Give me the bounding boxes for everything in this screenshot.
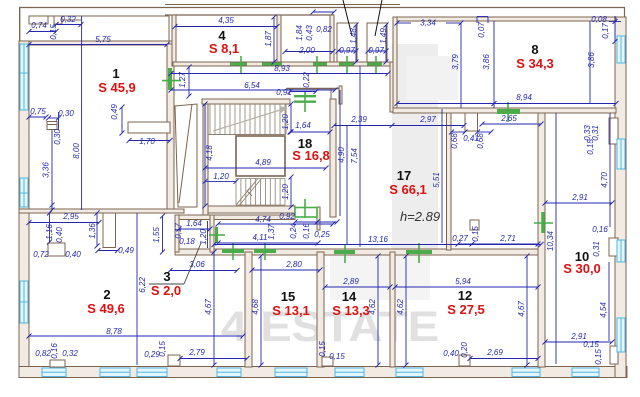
svg-text:0,17: 0,17	[601, 23, 610, 39]
svg-text:2,80: 2,80	[285, 260, 302, 269]
svg-text:0,72: 0,72	[33, 250, 49, 259]
svg-text:0,16: 0,16	[50, 343, 59, 359]
svg-text:0,24: 0,24	[289, 223, 298, 239]
svg-text:0,25: 0,25	[314, 230, 330, 239]
svg-text:2,89: 2,89	[342, 277, 359, 286]
svg-text:0,20: 0,20	[460, 342, 469, 358]
svg-text:0,97: 0,97	[368, 46, 384, 55]
svg-text:0,15: 0,15	[586, 139, 595, 155]
svg-text:0,15: 0,15	[583, 340, 599, 349]
svg-text:2,95: 2,95	[62, 212, 79, 221]
svg-text:1,64: 1,64	[186, 219, 202, 228]
svg-text:1,55: 1,55	[152, 227, 161, 243]
svg-text:0,16: 0,16	[592, 225, 608, 234]
svg-text:1,48: 1,48	[349, 28, 358, 44]
svg-text:17: 17	[397, 168, 411, 183]
svg-text:3,34: 3,34	[420, 19, 436, 28]
svg-text:13,16: 13,16	[368, 235, 389, 244]
svg-text:0,68: 0,68	[450, 133, 459, 149]
svg-text:4,70: 4,70	[600, 172, 609, 188]
svg-text:1,20: 1,20	[281, 184, 290, 200]
svg-text:3,06: 3,06	[189, 260, 205, 269]
svg-text:S 8,1: S 8,1	[209, 41, 239, 56]
svg-text:1,16: 1,16	[45, 224, 54, 240]
svg-text:0,97: 0,97	[339, 46, 355, 55]
svg-text:4,67: 4,67	[204, 299, 213, 315]
svg-text:0,75: 0,75	[30, 107, 46, 116]
svg-text:S 27,5: S 27,5	[447, 302, 485, 317]
svg-text:4,18: 4,18	[205, 145, 214, 161]
svg-text:2,69: 2,69	[486, 348, 503, 357]
svg-text:0,40: 0,40	[55, 227, 64, 243]
svg-text:S 49,6: S 49,6	[87, 301, 125, 316]
svg-text:4,67: 4,67	[517, 301, 526, 317]
svg-text:0,32: 0,32	[60, 15, 76, 24]
svg-text:4,68: 4,68	[251, 299, 260, 315]
svg-text:0,49: 0,49	[118, 246, 134, 255]
svg-text:2,71: 2,71	[499, 234, 516, 243]
svg-text:1,37: 1,37	[267, 224, 276, 240]
svg-text:h=2.89: h=2.89	[400, 209, 440, 224]
svg-text:1,84: 1,84	[295, 25, 304, 41]
svg-text:0,82: 0,82	[316, 25, 332, 34]
svg-text:4,11: 4,11	[253, 233, 268, 242]
svg-text:0,49: 0,49	[110, 104, 119, 120]
svg-text:8: 8	[531, 42, 538, 57]
svg-text:1,20: 1,20	[213, 172, 229, 181]
svg-text:0,16: 0,16	[302, 223, 311, 239]
svg-text:0,91: 0,91	[276, 88, 292, 97]
svg-text:1,49: 1,49	[379, 28, 388, 44]
svg-text:4,62: 4,62	[396, 299, 405, 315]
svg-text:4,54: 4,54	[599, 302, 608, 318]
svg-text:1,20: 1,20	[281, 114, 290, 130]
svg-text:0,31: 0,31	[592, 241, 601, 257]
svg-text:4,89: 4,89	[255, 158, 271, 167]
svg-text:5,94: 5,94	[455, 277, 471, 286]
svg-text:4,35: 4,35	[218, 16, 234, 25]
svg-text:S 34,3: S 34,3	[516, 56, 554, 71]
svg-text:S 30,0: S 30,0	[563, 261, 601, 276]
svg-text:8,00: 8,00	[72, 143, 81, 159]
svg-text:0,82: 0,82	[35, 349, 51, 358]
svg-text:0,17: 0,17	[174, 223, 183, 239]
svg-text:0,68: 0,68	[476, 133, 485, 149]
svg-text:0,43: 0,43	[305, 25, 314, 41]
svg-text:0,92: 0,92	[279, 212, 295, 221]
svg-text:2,97: 2,97	[419, 115, 436, 124]
svg-text:1,27: 1,27	[178, 72, 187, 88]
svg-text:S 13,1: S 13,1	[272, 303, 310, 318]
svg-text:0,22: 0,22	[302, 72, 311, 88]
svg-text:0,30: 0,30	[58, 109, 74, 118]
svg-text:7,54: 7,54	[350, 148, 359, 164]
svg-text:4,74: 4,74	[255, 215, 271, 224]
svg-text:1,20: 1,20	[199, 229, 208, 245]
svg-text:0,32: 0,32	[62, 349, 78, 358]
svg-text:0,15: 0,15	[318, 341, 327, 357]
svg-text:3,36: 3,36	[42, 162, 51, 178]
svg-text:6,22: 6,22	[138, 277, 147, 293]
svg-text:2,91: 2,91	[571, 193, 588, 202]
svg-text:3,86: 3,86	[587, 52, 596, 68]
svg-text:1,64: 1,64	[295, 121, 311, 130]
svg-text:5,75: 5,75	[95, 35, 111, 44]
svg-text:S 45,9: S 45,9	[98, 80, 136, 95]
svg-text:0,15: 0,15	[471, 226, 480, 242]
svg-text:0,31: 0,31	[591, 125, 600, 141]
svg-text:1,36: 1,36	[88, 223, 97, 239]
svg-text:12: 12	[458, 288, 472, 303]
svg-text:2: 2	[103, 287, 110, 302]
svg-text:8,93: 8,93	[274, 64, 290, 73]
svg-text:10,34: 10,34	[546, 230, 555, 251]
svg-text:0,30: 0,30	[53, 129, 62, 145]
svg-text:0,40: 0,40	[65, 250, 81, 259]
svg-text:4,90: 4,90	[337, 147, 346, 163]
svg-text:2,00: 2,00	[298, 46, 315, 55]
svg-text:2,79: 2,79	[188, 348, 205, 357]
svg-text:0,27: 0,27	[452, 234, 468, 243]
svg-text:5,51: 5,51	[432, 172, 441, 188]
svg-text:15: 15	[281, 289, 295, 304]
svg-text:8,94: 8,94	[516, 93, 532, 102]
svg-text:0,15: 0,15	[594, 349, 603, 365]
svg-text:1: 1	[112, 66, 119, 81]
svg-text:0,07: 0,07	[477, 22, 486, 38]
svg-text:S 2,0: S 2,0	[151, 283, 181, 298]
svg-text:S 66,1: S 66,1	[389, 182, 427, 197]
svg-text:14: 14	[342, 289, 357, 304]
svg-text:0,15: 0,15	[329, 352, 345, 361]
svg-text:0,40: 0,40	[443, 349, 459, 358]
svg-text:0,15: 0,15	[158, 341, 167, 357]
svg-text:3,86: 3,86	[482, 54, 491, 70]
svg-text:0,15: 0,15	[49, 24, 58, 40]
svg-text:0,08: 0,08	[591, 15, 607, 24]
svg-text:6,54: 6,54	[244, 81, 260, 90]
svg-text:S 13,3: S 13,3	[332, 303, 370, 318]
svg-text:1,70: 1,70	[139, 137, 155, 146]
svg-text:3: 3	[163, 269, 170, 284]
svg-text:2,65: 2,65	[500, 114, 517, 123]
svg-text:8,78: 8,78	[106, 327, 122, 336]
svg-text:1,87: 1,87	[264, 31, 273, 47]
svg-text:0,74: 0,74	[31, 21, 47, 30]
svg-text:3,79: 3,79	[451, 54, 460, 70]
svg-text:2,39: 2,39	[350, 115, 367, 124]
svg-text:S 16,8: S 16,8	[292, 148, 330, 163]
